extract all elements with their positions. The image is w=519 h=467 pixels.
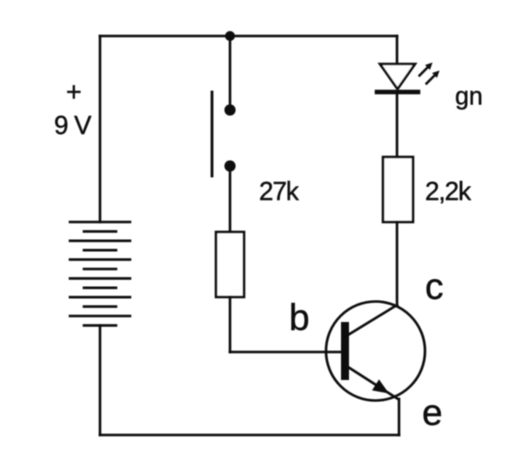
wire bottom rail bbox=[100, 434, 399, 437]
LED D1 bbox=[377, 63, 440, 93]
svg-text:27k: 27k bbox=[259, 176, 300, 206]
wire resistor 27k to base bbox=[229, 297, 232, 352]
node junction top rail bbox=[225, 31, 235, 41]
svg-text:e: e bbox=[422, 392, 443, 433]
battery B1 9V bbox=[70, 222, 130, 325]
wire base horizontal bbox=[230, 351, 341, 354]
wire switch drop from junction bbox=[229, 36, 232, 110]
wire resistor 2,2k to collector bbox=[396, 222, 399, 305]
wire battery - to bottom rail bbox=[99, 325, 102, 435]
svg-text:9 V: 9 V bbox=[54, 110, 92, 140]
svg-text:b: b bbox=[289, 297, 310, 338]
svg-text:2,2k: 2,2k bbox=[425, 176, 472, 206]
wire LED to resistor 2,2k bbox=[396, 92, 399, 157]
wire switch to resistor 27k bbox=[229, 166, 232, 232]
resistor R1 27k bbox=[216, 232, 244, 297]
svg-text:+: + bbox=[66, 77, 82, 107]
wire top rail bbox=[100, 35, 397, 38]
transistor Q1 bbox=[326, 302, 425, 401]
wire emitter vertical bbox=[398, 399, 401, 435]
wire left vertical (battery +) bbox=[99, 36, 102, 222]
svg-text:gn: gn bbox=[455, 83, 483, 111]
svg-text:c: c bbox=[425, 266, 444, 307]
wire LED drop bbox=[396, 36, 399, 64]
resistor R2 2,2k bbox=[383, 157, 413, 222]
switch S1 push-button bbox=[212, 92, 236, 176]
